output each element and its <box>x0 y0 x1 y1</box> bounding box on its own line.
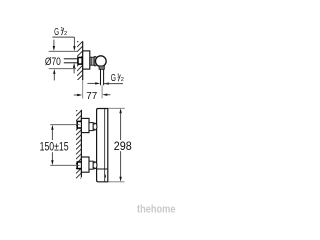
dim G 1/2 at pipe : right arrow + leader under text <box>104 82 109 84</box>
supply stub pipe behind wall <box>64 59 78 63</box>
body bar <box>97 109 108 182</box>
dim 298 extension lines <box>108 107 124 109</box>
dim G 1/2 at pipe : left arrow <box>87 82 96 84</box>
dim 298 line + arrows <box>119 108 121 113</box>
upper union neck+dome <box>93 123 97 130</box>
upper union escutcheon <box>81 118 89 132</box>
dim Ø70 bottom arrow <box>53 69 55 74</box>
body bar inner line <box>104 109 106 181</box>
svg-text:2: 2 <box>64 31 67 37</box>
wall hatch (front view) <box>76 106 82 188</box>
dim Ø70 extension lines <box>49 50 78 52</box>
dim 150±15 line + arrows <box>51 125 53 130</box>
svg-text:G: G <box>111 73 116 84</box>
lower union escutcheon <box>81 157 89 172</box>
escutcheon flange (side view) <box>83 51 90 69</box>
upper union nut <box>89 123 93 131</box>
svg-text:G: G <box>54 27 59 38</box>
dim 77 : left extension (wall face) <box>82 80 84 99</box>
svg-text:thehome: thehome <box>137 204 176 216</box>
leader drop from G 1/2 <box>73 37 75 47</box>
union nut (side view) <box>90 57 96 66</box>
handle knob circle (side view) <box>95 56 106 67</box>
up arrow at supply stub <box>73 63 75 68</box>
dim Ø70 top arrow <box>53 40 55 48</box>
svg-text:77: 77 <box>86 91 97 102</box>
wall hatch (side view) <box>77 36 83 90</box>
svg-text:2: 2 <box>121 77 124 83</box>
pipe centerline extension <box>101 85 103 98</box>
wall face line (side view) <box>82 41 84 80</box>
body bar seam <box>97 168 108 170</box>
dim 77 : left arrow <box>74 94 78 96</box>
lower union neck+dome <box>93 162 97 169</box>
wall socket fitting <box>78 58 82 65</box>
dim 150±15 extension lines <box>50 124 79 126</box>
outlet notch <box>104 175 107 178</box>
dim 77 : right arrow <box>102 94 107 96</box>
svg-text:Ø70: Ø70 <box>45 56 61 68</box>
collar below knob <box>99 66 104 69</box>
svg-text:298: 298 <box>114 139 132 153</box>
upper union wall socket <box>77 121 82 128</box>
svg-text:150±15: 150±15 <box>40 141 69 153</box>
wall face line (front view) <box>80 110 82 177</box>
lower union wall socket <box>77 162 82 169</box>
lower union nut <box>89 161 93 169</box>
outlet pipe (side view) <box>101 69 104 85</box>
